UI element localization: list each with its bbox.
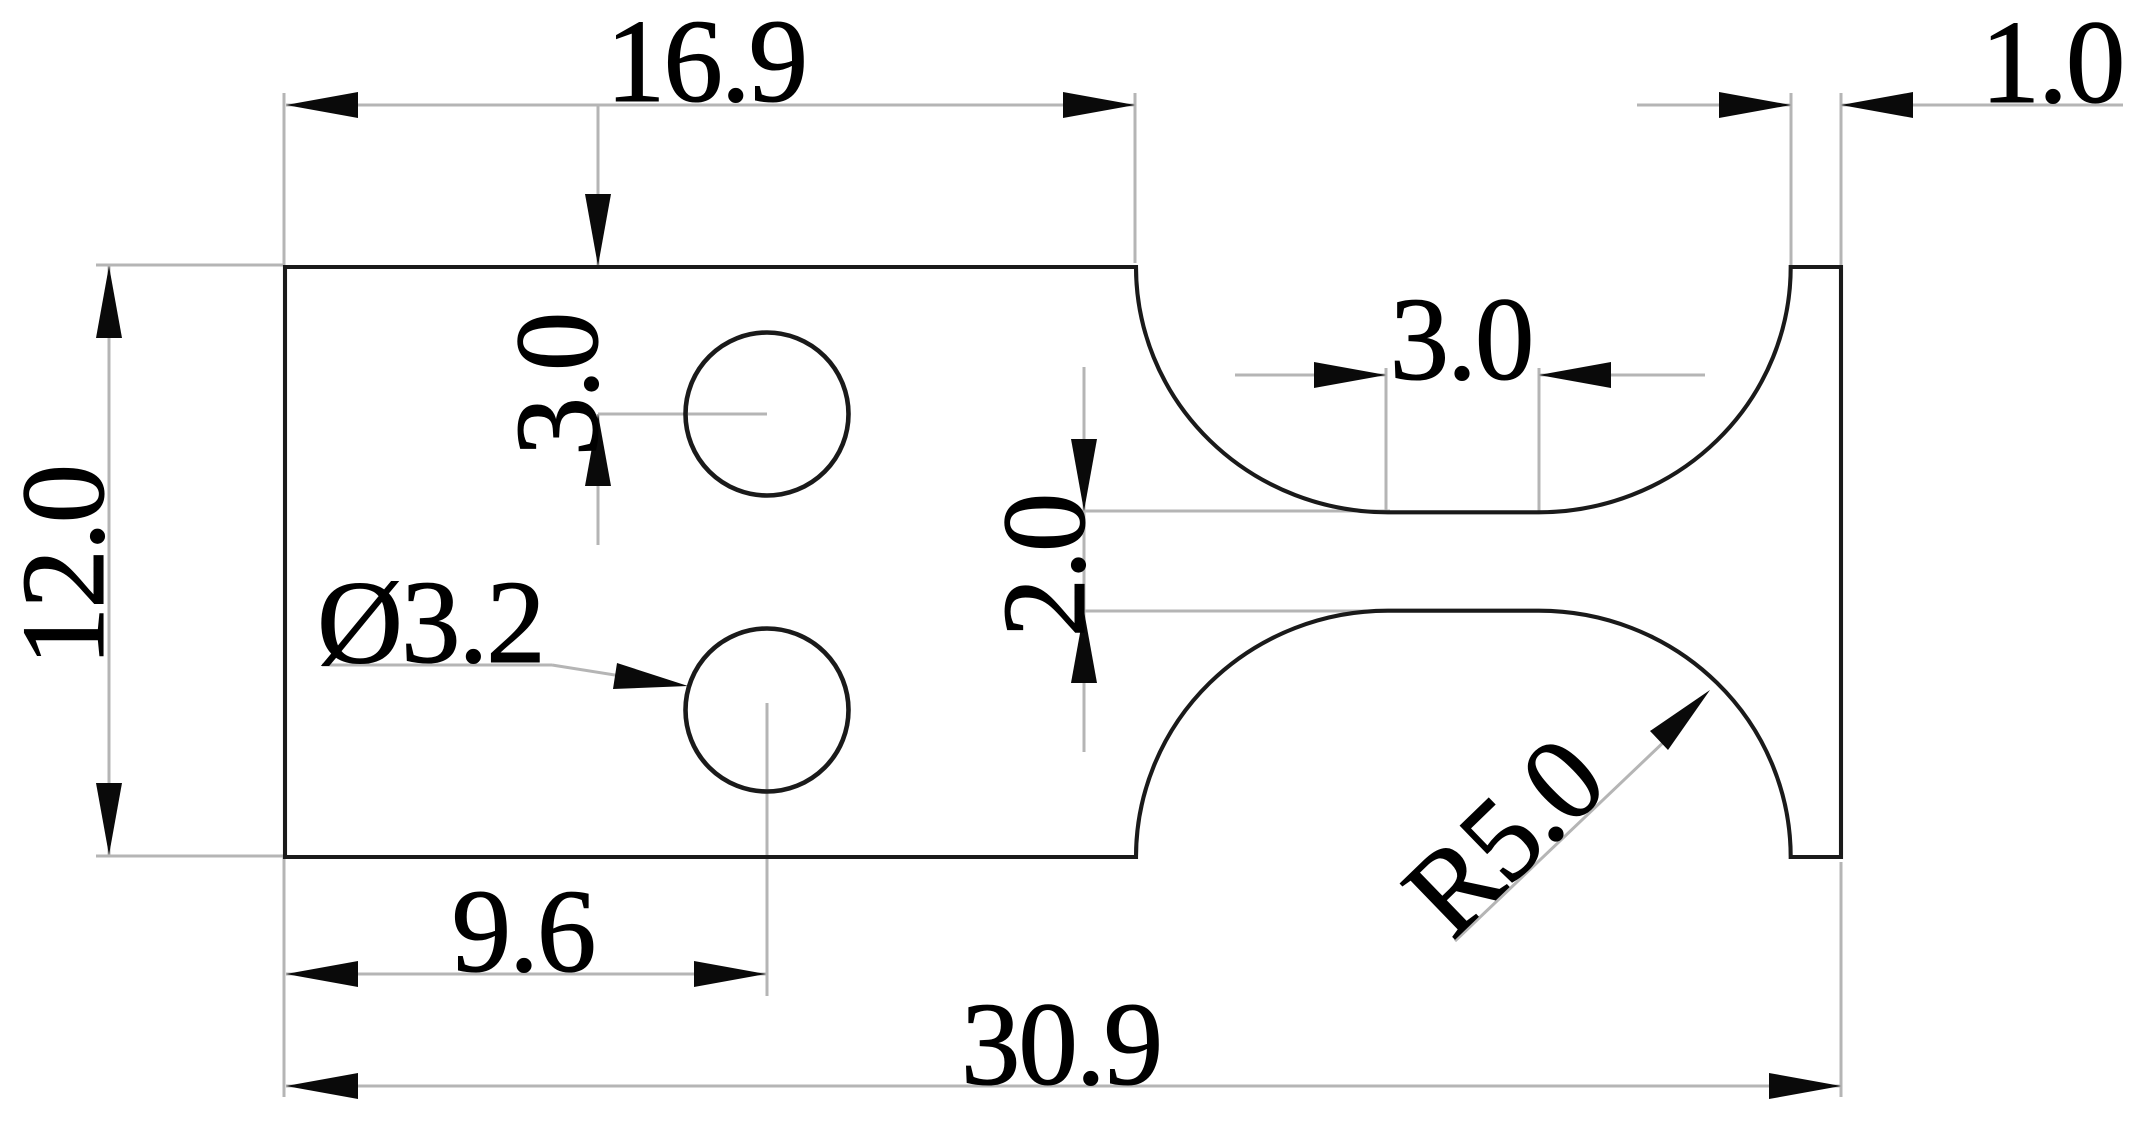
- leader diameter 3.2 underline: [322, 664, 552, 667]
- extension line 16.9 left: [283, 93, 286, 266]
- svg-text:3.0: 3.0: [1390, 273, 1533, 405]
- arrow 1.0 right: [1841, 92, 1913, 118]
- svg-text:3.0: 3.0: [491, 314, 623, 457]
- dimension line 16.9: [286, 104, 1135, 107]
- hole circle 2: [686, 629, 849, 792]
- arrow 1.0 left: [1719, 92, 1791, 118]
- dimension line 9.6: [286, 973, 766, 976]
- part outline: [285, 267, 1841, 857]
- arrow 12.0 top: [96, 266, 122, 338]
- extension line 3.0 neck right: [1538, 368, 1541, 511]
- arrow 30.9 left: [286, 1073, 358, 1099]
- svg-text:1.0: 1.0: [1981, 0, 2124, 128]
- svg-text:2.0: 2.0: [978, 495, 1110, 638]
- extension line 3.0 neck left: [1385, 368, 1388, 511]
- extension line 2.0 neck bottom: [1080, 610, 1390, 613]
- extension line 1.0 right: [1840, 93, 1843, 266]
- arrow 30.9 right: [1769, 1073, 1841, 1099]
- leader R5.0: [1455, 738, 1668, 941]
- svg-text:9.6: 9.6: [452, 865, 595, 997]
- arrow diameter 3.2: [613, 663, 688, 689]
- dimension line 12.0: [108, 266, 111, 855]
- dimension line 3.0 neck left segment: [1235, 374, 1386, 377]
- centerline hole 1: [598, 413, 767, 416]
- arrow R5.0: [1650, 690, 1710, 750]
- svg-text:16.9: 16.9: [606, 0, 806, 127]
- extension line 1.0 left: [1790, 93, 1793, 266]
- svg-text:Ø3.2: Ø3.2: [317, 556, 544, 688]
- arrow 3.0 neck left: [1314, 362, 1386, 388]
- dimension line 30.9: [286, 1085, 1841, 1088]
- arrow 12.0 bottom: [96, 783, 122, 855]
- extension line 30.9 right: [1840, 862, 1843, 1097]
- arrow 2.0 upper: [1071, 439, 1097, 511]
- dimension line 1.0 right tail: [1841, 104, 2123, 107]
- arrow 16.9 right: [1063, 92, 1135, 118]
- arrow 9.6 left: [286, 961, 358, 987]
- svg-text:30.9: 30.9: [961, 978, 1161, 1110]
- leader diameter 3.2 diagonal: [552, 665, 640, 679]
- arrow 3.0 neck right: [1539, 362, 1611, 388]
- extension line 9.6 left: [283, 857, 286, 1097]
- dimension line 3.0 neck right segment: [1539, 374, 1705, 377]
- dimension line 2.0: [1083, 367, 1086, 752]
- arrow 3.0 hole lower: [585, 414, 611, 486]
- extension line 16.9 right: [1134, 93, 1137, 263]
- arrow 9.6 right: [694, 961, 766, 987]
- dimension line 1.0 left tail: [1637, 104, 1791, 107]
- arrow 16.9 left: [286, 92, 358, 118]
- arrow 2.0 lower: [1071, 611, 1097, 683]
- hole circle 1: [686, 333, 849, 496]
- centerline hole 2 vertical: [766, 703, 769, 996]
- svg-text:12.0: 12.0: [0, 466, 129, 666]
- extension line 2.0 neck top: [1080, 510, 1390, 513]
- extension line 12.0 bottom: [96, 855, 285, 858]
- extension line 12.0 top: [96, 264, 285, 267]
- dimension line 3.0 hole lower segment: [597, 414, 600, 545]
- dimension line 3.0 hole upper segment: [597, 106, 600, 266]
- arrow 3.0 hole upper: [585, 194, 611, 266]
